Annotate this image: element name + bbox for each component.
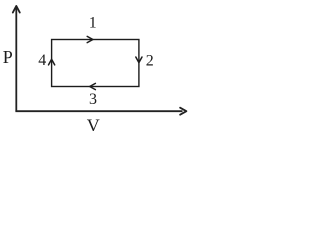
V axis (horizontal axis line) xyxy=(15,110,182,112)
arrow on right edge, process 2 (downward) xyxy=(136,57,142,63)
svg-text:1: 1 xyxy=(89,15,97,32)
svg-text:4: 4 xyxy=(38,52,46,69)
svg-text:2: 2 xyxy=(146,52,154,69)
P axis arrowhead (up) xyxy=(13,6,20,13)
arrow on left edge, process 4 (upward) xyxy=(49,59,55,65)
arrow on bottom edge, process 3 (leftward) xyxy=(90,83,96,89)
V axis arrowhead (right) xyxy=(180,108,186,115)
svg-text:3: 3 xyxy=(89,91,97,108)
P axis (vertical axis line) xyxy=(15,7,17,111)
svg-text:P: P xyxy=(3,47,13,67)
arrow on top edge, process 1 (rightward) xyxy=(87,36,93,42)
cycle rectangle (process loop) xyxy=(52,40,139,87)
svg-text:V: V xyxy=(87,116,100,132)
